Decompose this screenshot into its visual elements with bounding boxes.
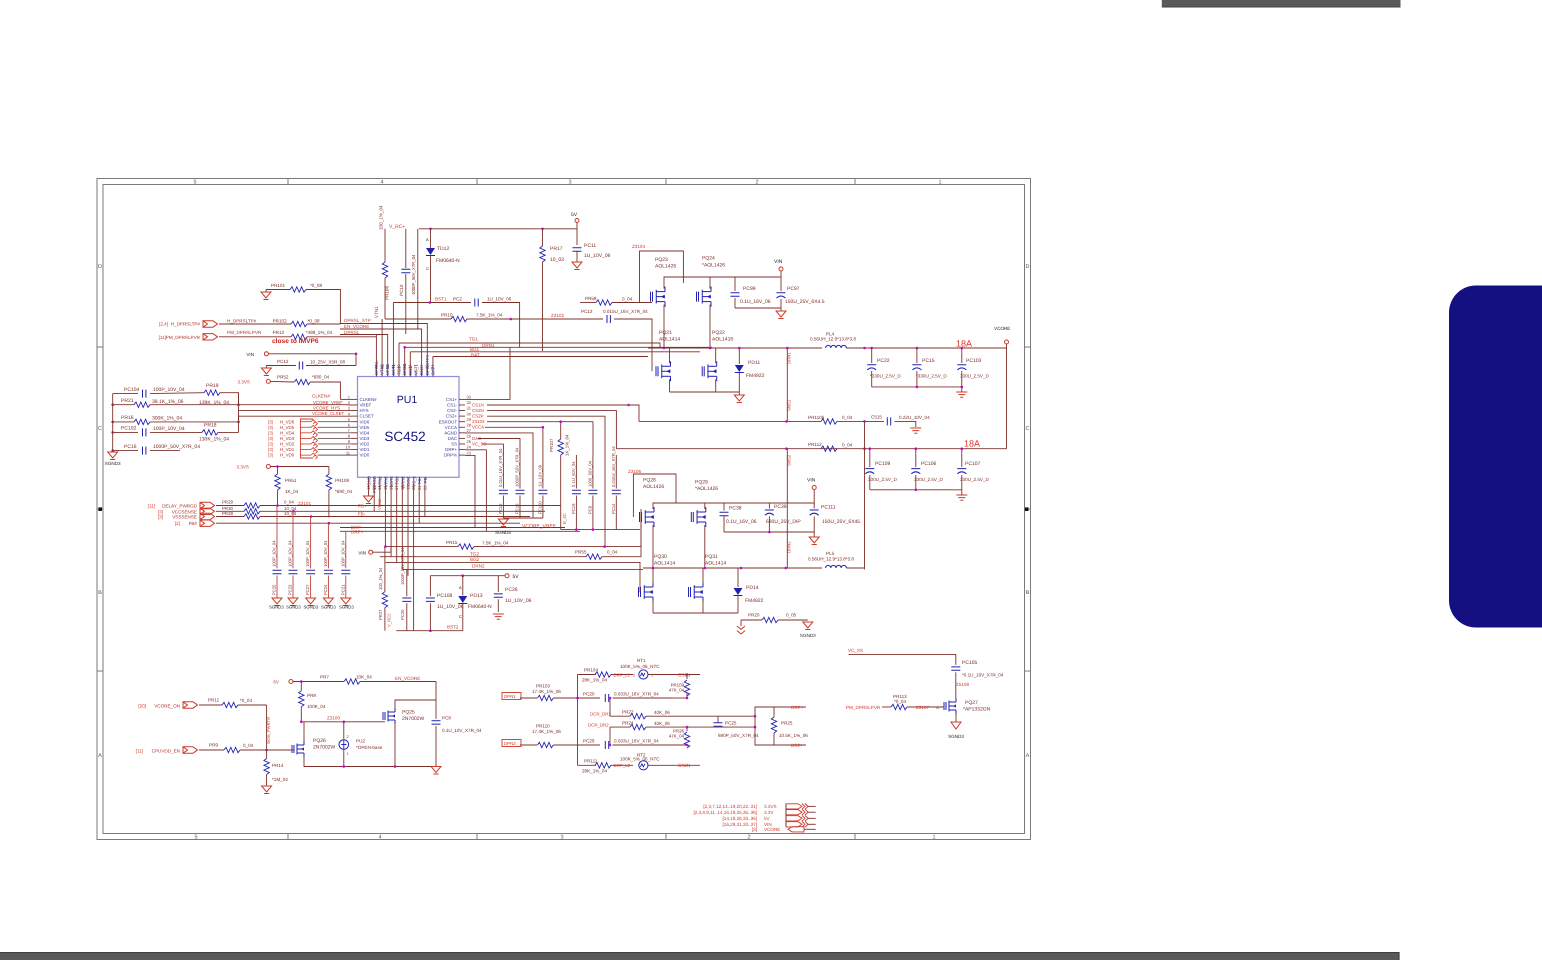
svg-text:32: 32 [467,400,472,405]
wire [384,229,386,231]
wire BAT [433,356,648,358]
pin 25 SS [459,443,465,445]
svg-text:CS2-: CS2- [447,408,458,413]
svg-text:0_04: 0_04 [622,297,633,302]
svg-text:18A: 18A [964,439,980,449]
pin 16 BST2 [390,477,392,483]
wire [561,529,640,531]
wire DRN2 [402,568,643,570]
wire PR15 row [385,546,458,548]
svg-text:40: 40 [396,364,401,369]
svg-text:PC102: PC102 [121,426,137,432]
svg-text:B: B [98,590,102,596]
svg-text:1U_10V_06: 1U_10V_06 [437,604,464,610]
pin 37 VS_1 [415,371,417,377]
wire DPRSL [340,335,388,377]
svg-text:DRP+: DRP+ [351,529,364,534]
wire pin24 DRP+ [465,450,486,532]
resistor PR8 [300,682,302,691]
ground [323,598,333,606]
svg-text:VCORE_ON: VCORE_ON [154,704,180,709]
svg-text:5: 5 [194,835,197,841]
svg-text:SGND3: SGND3 [286,605,301,610]
wire gate [301,721,385,723]
svg-text:PC13: PC13 [581,309,593,314]
svg-text:PC97: PC97 [787,286,800,292]
svg-text:*AOL1426: *AOL1426 [702,263,725,269]
svg-text:1K_04: 1K_04 [285,489,299,494]
svg-text:*OPEN-base: *OPEN-base [356,745,383,750]
svg-text:CS1N: CS1N [678,672,690,677]
svg-text:[14,19,26,33..36]: [14,19,26,33..36] [723,816,757,821]
svg-text:100P_10V_04: 100P_10V_04 [288,540,293,567]
svg-text:0.56UH_12.9*13.8*3.8: 0.56UH_12.9*13.8*3.8 [810,337,856,342]
svg-text:FM0640-N: FM0640-N [436,258,460,264]
svg-text:2: 2 [747,835,750,841]
svg-text:330U_2.5V_D: 330U_2.5V_D [960,374,990,379]
capacitor PC111 [813,503,815,509]
pin 33 CS1+ [459,398,465,400]
wire BST2 [396,630,463,632]
svg-text:PQ28: PQ28 [643,478,656,484]
svg-text:36: 36 [419,364,424,369]
svg-text:*AOL1426: *AOL1426 [695,486,718,492]
wire row 3 [239,410,352,412]
svg-text:PR101: PR101 [271,283,285,288]
svg-text:PC106: PC106 [921,461,937,467]
svg-text:RT1: RT1 [637,658,646,663]
wire [379,483,381,505]
wire [292,511,294,535]
svg-text:BG1: BG1 [470,347,480,352]
node 5V [575,219,579,223]
ground [572,262,582,270]
capacitor PC13 [607,315,610,323]
wire BG2 [385,562,640,592]
svg-text:V_RC2: V_RC2 [387,613,392,627]
svg-text:VIN: VIN [774,259,783,265]
svg-text:C: C [459,614,462,619]
svg-text:DAC: DAC [448,436,457,441]
wire pin25 VC_SS [482,444,503,455]
svg-text:3.3V: 3.3V [764,810,774,815]
op-amp U1 PU1 SC452 [358,377,460,478]
wire [413,483,415,630]
svg-text:Z3101: Z3101 [298,501,311,506]
svg-text:[20]: [20] [138,704,146,709]
svg-text:PR17: PR17 [550,246,563,252]
wire [373,547,391,553]
svg-text:PR22: PR22 [622,710,634,715]
svg-text:18A: 18A [956,339,972,349]
svg-text:SC452: SC452 [384,429,425,444]
svg-text:1000P_50V_X7R_04: 1000P_50V_X7R_04 [400,547,405,585]
wire row PC104 [113,393,138,395]
svg-text:A: A [459,585,462,590]
svg-text:Z3106: Z3106 [628,469,641,474]
svg-text:H_DPRSLTP#: H_DPRSLTP# [227,319,257,324]
svg-text:100P_10V_04: 100P_10V_04 [305,540,310,567]
svg-text:FB#: FB# [189,521,198,526]
svg-text:37: 37 [413,364,418,369]
svg-text:FB-: FB- [358,511,366,516]
pin 12 GND [368,477,370,483]
svg-text:DRP-: DRP- [791,743,803,748]
svg-text:G: G [936,706,939,710]
svg-text:TD12: TD12 [437,246,449,252]
svg-text:0.1U_16V_06: 0.1U_16V_06 [726,519,757,525]
svg-text:0.1U_16V_06: 0.1U_16V_06 [740,299,771,305]
resistor PR18 [202,430,218,435]
ground [261,292,271,300]
svg-text:PR108: PR108 [335,478,349,483]
ground [341,598,351,606]
svg-text:*0_04: *0_04 [894,699,906,704]
pin 30 CS2+ [459,415,465,417]
svg-text:PC21: PC21 [340,584,345,595]
resistor PR51 [277,467,279,475]
ground [261,368,271,376]
pin 2 VREF [352,404,358,406]
thermistor RT2 [578,764,597,766]
svg-text:28K_1%_04: 28K_1%_04 [582,768,607,773]
svg-text:100K_5%_06_NTC: 100K_5%_06_NTC [620,664,660,669]
svg-text:VREF: VREF [360,403,372,408]
svg-text:5V: 5V [764,816,771,821]
svg-text:0_04: 0_04 [842,415,853,420]
node VCORE [1006,344,1008,348]
pin 35 DPRSTP# [426,371,428,377]
svg-text:Z5108: Z5108 [956,682,969,687]
ground [738,392,740,395]
svg-text:SGND3: SGND3 [339,605,354,610]
svg-text:PQ31: PQ31 [705,554,718,560]
svg-text:PR107: PR107 [549,438,554,452]
wire SNS1 [786,348,788,422]
pin 32 CS1- [459,404,465,406]
svg-text:V_RC+: V_RC+ [389,224,405,230]
svg-text:PR20: PR20 [748,612,760,617]
svg-text:PC24: PC24 [323,584,328,595]
wire TG1 [399,343,660,348]
svg-text:4: 4 [378,835,381,841]
svg-text:100K_04: 100K_04 [307,704,326,709]
pin 43 VTN1 [381,371,383,377]
sheet border frame [97,179,1031,840]
node VIN [812,486,816,490]
wire [238,393,240,433]
resistor PR21 [113,404,134,406]
resistor PR7 [344,679,360,684]
wire phase rail lower [643,567,822,569]
resistor PR29 [216,505,244,507]
diode PD13 [462,576,464,596]
svg-text:31: 31 [467,406,472,411]
pin 44 DPRSL [375,371,377,377]
svg-text:B: B [1026,590,1030,596]
ground [910,428,921,433]
svg-text:PR16: PR16 [121,415,134,421]
svg-text:FB-: FB- [423,475,428,483]
capacitor PC108 [429,576,431,596]
resistor PR101 [266,289,290,291]
svg-text:PC20: PC20 [400,609,405,620]
wire pin27 AGND [465,433,533,518]
svg-text:FB+: FB+ [417,476,422,485]
svg-text:VID4: VID4 [360,430,370,435]
svg-text:CS1N: CS1N [472,402,484,407]
svg-text:0_05: 0_05 [786,612,797,617]
wire [401,483,403,569]
svg-text:*330U_2.5V_D: *330U_2.5V_D [870,374,901,379]
wire pin32 CS1N [487,405,639,421]
wire [609,698,611,716]
resistor PR15 [458,544,474,549]
junction [403,346,406,349]
svg-text:7.5K_1%_04: 7.5K_1%_04 [476,313,503,318]
wire [430,575,462,577]
svg-text:[3]: [3] [268,430,273,435]
svg-text:PC15: PC15 [498,503,503,514]
svg-text:DPRSL: DPRSL [344,330,360,335]
svg-text:44: 44 [374,364,379,369]
svg-text:PR19: PR19 [206,383,219,389]
svg-text:1000P_50V_X7R_04: 1000P_50V_X7R_04 [153,444,200,450]
resistor PR27 [384,547,386,592]
pin 26 DAC [459,437,465,439]
capacitor PC102 [113,431,138,433]
wire DRN1 [405,346,712,348]
capacitor PC29a PC20 [605,694,608,702]
capacitor PC8 [432,721,441,724]
svg-text:PC22: PC22 [877,358,890,364]
svg-text:*680_04: *680_04 [335,489,353,494]
wire [390,483,392,557]
wire [394,724,396,767]
capacitor PC107 [961,449,963,467]
svg-text:0.1U_50V_04: 0.1U_50V_04 [571,461,576,487]
svg-text:3: 3 [560,835,563,841]
capacitor PC2 [475,299,478,307]
svg-text:6V: 6V [273,680,280,685]
svg-text:FB+: FB+ [358,504,367,509]
svg-text:MOS_PWRTR: MOS_PWRTR [266,717,271,744]
wire DRP- [340,527,565,529]
capacitor PC23 [292,535,294,568]
scrollbar bottom [0,952,1400,960]
svg-text:PR27: PR27 [378,609,383,620]
zone labels [98,180,1030,841]
svg-text:C: C [1026,426,1030,432]
capacitor PC18 [519,455,521,489]
wire pin30 [487,416,605,546]
svg-text:SGND3: SGND3 [269,605,284,610]
svg-text:SGND3: SGND3 [948,734,964,739]
svg-text:VCORE_CLSET: VCORE_CLSET [312,411,345,416]
svg-text:43: 43 [379,364,384,369]
diode TD12 [430,229,432,248]
wire [396,483,398,562]
wire pin26 DAC [478,439,520,456]
svg-text:40K_06: 40K_06 [654,710,670,715]
wire [373,483,375,511]
wire [576,223,578,246]
svg-text:PR29: PR29 [222,499,234,504]
svg-text:1U_10V_06: 1U_10V_06 [537,464,542,487]
svg-text:DRP_L2: DRP_L2 [614,763,631,768]
svg-text:BAT: BAT [471,353,480,358]
svg-text:1: 1 [932,835,935,841]
svg-text:E_4C: E_4C [562,513,567,524]
svg-text:DRP%: DRP% [444,453,457,458]
svg-text:DELAY_PWRGD: DELAY_PWRGD [162,504,198,509]
svg-text:DRN2: DRN2 [787,541,792,553]
resistor PR13 [219,336,291,338]
svg-text:CS1-: CS1- [447,403,458,408]
svg-text:D: D [1026,264,1030,270]
svg-text:VIN: VIN [807,477,816,483]
svg-text:PC103: PC103 [966,358,982,364]
transistor PQ25 [383,708,395,724]
svg-text:A: A [426,237,429,242]
svg-text:7.5K_1%_04: 7.5K_1%_04 [482,540,509,545]
svg-text:[2,4]: [2,4] [159,322,168,327]
svg-text:4: 4 [380,180,383,186]
svg-text:PQ24: PQ24 [702,256,715,262]
wire [578,697,601,699]
svg-text:100P_10V_04: 100P_10V_04 [323,540,328,567]
ground [288,598,298,606]
svg-text:100_1%_04: 100_1%_04 [379,205,384,230]
svg-text:PR58: PR58 [585,296,597,301]
svg-text:PC111: PC111 [821,505,836,511]
svg-text:0.22U_10V_04: 0.22U_10V_04 [899,415,930,420]
svg-text:2: 2 [347,735,349,739]
svg-text:29: 29 [467,417,472,422]
svg-text:VID3: VID3 [360,436,370,441]
svg-text:1U_10V_06: 1U_10V_06 [487,297,512,302]
svg-text:*680_04: *680_04 [312,375,330,380]
capacitor C515 [887,417,890,425]
svg-text:PU1: PU1 [397,394,418,406]
svg-text:*1M_04: *1M_04 [272,777,288,782]
pin 23 DRP% [459,454,465,456]
svg-text:PD11: PD11 [748,360,760,366]
resistor PR102 [219,323,291,325]
svg-text:47K_04: 47K_04 [669,688,685,693]
wire pin28 VCCA [485,427,543,455]
svg-text:100P_10V_04: 100P_10V_04 [153,426,185,432]
svg-text:PM_DPRSLPVR: PM_DPRSLPVR [846,705,881,710]
svg-text:FM4922: FM4922 [745,598,764,604]
svg-text:SGND3: SGND3 [800,633,816,638]
svg-text:AOL1416: AOL1416 [712,337,733,343]
svg-text:VID2: VID2 [360,442,370,447]
resistor PR113 [882,706,891,708]
ground [956,392,967,397]
svg-text:PR15: PR15 [446,540,458,545]
svg-text:100P_10V_04: 100P_10V_04 [153,387,185,393]
svg-text:DPN2: DPN2 [504,741,516,746]
wire [652,525,654,568]
svg-text:3.3VS: 3.3VS [236,465,249,470]
svg-text:PR11: PR11 [208,698,220,703]
svg-text:H_VD2: H_VD2 [280,442,295,447]
svg-text:ESROUT: ESROUT [439,419,458,424]
svg-text:PC100: PC100 [537,501,542,514]
svg-text:25: 25 [467,439,472,444]
diode PD11 [738,348,740,364]
wire [268,353,356,355]
svg-text:PC25: PC25 [272,584,277,595]
svg-text:2N7002W: 2N7002W [313,745,336,751]
svg-text:Z3107: Z3107 [916,705,929,710]
pin 7 VID4 [352,432,358,434]
svg-text:24: 24 [467,445,472,450]
svg-text:CPUVDD_EN: CPUVDD_EN [152,749,180,754]
svg-text:PC14: PC14 [611,503,616,514]
svg-text:PC19: PC19 [571,503,576,514]
svg-text:PC23: PC23 [288,584,293,595]
capacitor PC25 [717,716,719,723]
svg-text:TG2: TG2 [470,551,479,556]
svg-text:VS_2: VS_2 [412,475,417,486]
wire drain rail upper [664,277,781,289]
capacitor PC12 [266,365,296,367]
pin 42 VFN1 [387,371,389,377]
svg-text:10_25V_X5R_08: 10_25V_X5R_08 [310,359,345,364]
wire [216,522,520,524]
resistor PR25 [773,707,775,717]
svg-text:17.4K_1%_06: 17.4K_1%_06 [532,689,561,694]
svg-text:PD13: PD13 [470,593,483,599]
capacitor PC21 [345,535,347,568]
capacitor PC27 [310,535,312,568]
svg-text:0.56UH_12.9*13.8*3.8: 0.56UH_12.9*13.8*3.8 [808,557,854,562]
capacitor PC11 [573,248,582,251]
wire [407,483,409,575]
svg-text:PD14: PD14 [746,585,759,591]
wire [724,531,814,533]
wire [872,386,962,388]
svg-text:26: 26 [467,434,472,439]
svg-text:PC8: PC8 [442,716,451,721]
wire [870,489,962,491]
svg-text:10K_04: 10K_04 [356,675,372,680]
wire [577,675,579,766]
wire VCORE rail 2 [616,448,1006,450]
wire top rail [419,228,577,230]
pin 9 VID2 [352,443,358,445]
wire BG1 [410,351,700,353]
pin 15 VFN2 [384,477,386,483]
pin 8 VID3 [352,437,358,439]
pin 6 VID5 [352,426,358,428]
svg-text:PR112: PR112 [808,442,822,447]
svg-text:17.4K_1%_06: 17.4K_1%_06 [532,729,561,734]
svg-text:CLSET: CLSET [360,414,374,419]
svg-text:SGND3: SGND3 [321,605,336,610]
svg-text:PR9: PR9 [209,743,218,748]
wire [653,612,738,614]
wire [112,394,114,452]
svg-text:AOL1426: AOL1426 [643,484,664,490]
svg-text:2: 2 [755,180,758,186]
svg-text:SS: SS [451,442,457,447]
svg-text:H_VD5: H_VD5 [280,425,295,430]
svg-text:PQ30: PQ30 [654,554,667,560]
capacitor PC99 [734,277,736,291]
